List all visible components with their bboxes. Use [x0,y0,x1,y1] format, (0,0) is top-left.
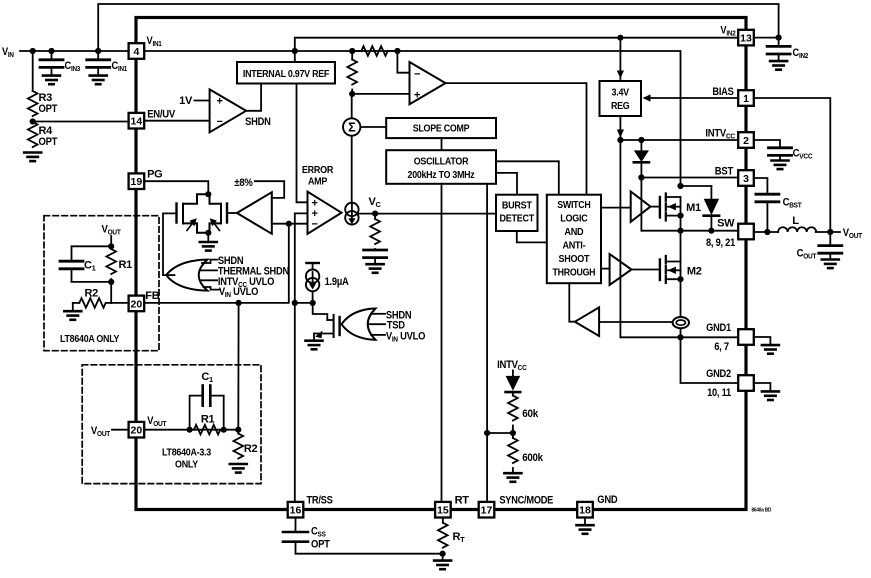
junction VC [372,211,378,217]
transistor M1 [660,194,681,221]
pin 3 BST [738,170,754,186]
svg-text:AND: AND [564,226,584,238]
svg-text:R2: R2 [85,288,99,300]
svg-text:ERROR: ERROR [302,164,334,176]
OR gate shutdown (4-input) [166,260,207,291]
pin 16 TR/SS [288,502,304,518]
wire: M1 driver to gate [651,206,660,208]
capacitor CVCC [754,140,780,148]
svg-text:+: + [414,90,420,102]
wire: VIN2 into 3.4V REG with arrow [619,38,621,79]
transistor M2 [660,256,681,283]
svg-text:CIN3: CIN3 [65,60,81,73]
svg-text:VIN: VIN [2,46,14,59]
OR gate TR/SS discharge (3-input) [342,309,376,340]
junction FB at - input [286,221,292,227]
svg-text:200kHz TO 3MHz: 200kHz TO 3MHz [408,169,475,181]
resistor current sense horizontal [352,50,361,52]
svg-text:FB: FB [145,290,159,302]
junction R3/R4 EN divider [30,118,36,124]
svg-text:PG: PG [147,169,162,181]
svg-text:LT8640A-3.3: LT8640A-3.3 [162,447,211,459]
junction sense resistor right [394,48,400,54]
junction INTVCC at regulator output [617,137,623,143]
svg-text:SHOOT: SHOOT [559,253,591,265]
svg-text:−: − [414,69,420,81]
wire: OR input INTVCC UVLO [202,279,218,281]
wire: EN comparator output SHDN up to REF box [246,84,261,111]
ground below PMOS pair [200,242,217,251]
op-amp PG window comparator [237,192,272,234]
svg-text:AMP: AMP [308,176,327,188]
svg-text:COUT: COUT [797,248,817,261]
capacitor CSS OPT [295,518,297,532]
wire: INTVCC rail to pin 2 [620,139,738,141]
svg-text:GND2: GND2 [706,368,731,380]
ground below pin 18 [584,518,586,526]
current source clamp at error amp output [345,203,358,225]
junction on VIN rail at R3 [30,48,36,54]
resistor VC compensation [374,214,376,219]
resistor R4 OPT [28,122,38,147]
wire: L to VOUT [816,231,840,233]
wire: BST rail down through M1 driver to SW [640,178,642,231]
wire: switch logic to M1 driver [601,207,631,209]
wire: jog to current comparator - input [397,51,409,73]
pin 18 GND [577,502,593,518]
wire: OR input VIN UVLO [204,287,219,290]
resistor 60k [508,396,518,421]
junction 1.9uA output [310,300,316,306]
ground below R4 [24,153,41,162]
wire: M1 source to SW to M2 drain [680,216,682,262]
wire: SW to inductor [754,231,778,233]
svg-text:VIN UVLO: VIN UVLO [386,330,426,343]
wire: PG pin to PMOS pair top [144,181,208,194]
junction PMOS pair bottom [205,230,211,236]
wire: INTVCC rail down through M2 driver to GND1 [620,140,680,337]
transistor TR/SS discharge NMOS [314,315,340,341]
svg-text:15: 15 [437,505,449,517]
svg-text:20: 20 [131,298,143,310]
svg-text:BIAS: BIAS [712,86,733,98]
pin 20 VOUT (3.3) [129,422,145,438]
summing node sigma [343,118,360,135]
svg-text:R1: R1 [119,259,133,271]
wire: EN/UV from divider to pin 14 [33,121,129,123]
svg-text:CVCC: CVCC [793,148,813,161]
resistor R1 (3.3) [194,425,220,435]
svg-text:1.9µA: 1.9µA [325,276,349,288]
junction M1 drain [677,183,683,189]
wire: OR2 input TSD [368,323,385,325]
junction VOUT/R1/C1 [108,243,114,249]
wire: VOUT into pin 20 [112,429,128,431]
pin 17 SYNC/MODE [479,502,495,518]
wire: OR2 input VIN UVLO [371,334,385,336]
wire: pin 13 to CIN2 [754,37,779,39]
svg-text:INTVCC: INTVCC [705,128,735,141]
svg-text:4: 4 [133,46,139,58]
svg-text:VC: VC [369,196,382,209]
junction RT/CSS ground node [440,551,446,557]
junction 60k/600k to SYNC [510,430,516,436]
wire: M2 driver to gate [632,269,660,271]
svg-text:1V: 1V [179,95,193,107]
junction TR/SS at 1.9uA [292,300,298,306]
svg-text:+: + [216,96,222,108]
svg-text:−: − [311,219,317,231]
junction sense resistor bottom [349,91,355,97]
svg-text:ONLY: ONLY [175,459,198,471]
wire: SW rail to pin [641,230,738,232]
svg-text:16: 16 [290,505,302,517]
wire: FB line up to rail [237,303,239,430]
svg-text:GND1: GND1 [706,322,731,334]
ground below RT [442,554,444,561]
svg-text:8640a BD: 8640a BD [752,508,772,514]
wire: right gate from PG comparator [228,212,237,214]
svg-text:3: 3 [743,173,749,185]
pin 15 RT [435,502,451,518]
wire: reverse comparator output up to switch logic [569,283,575,322]
svg-text:600k: 600k [522,452,544,464]
wire: sigma down to clamp [351,136,353,203]
junction INTVCC at boost diode [638,137,644,143]
svg-text:SHDN: SHDN [245,116,271,128]
wire: oscillator down to RT pin 15 [441,184,443,502]
box SWITCH LOGIC AND ANTI-SHOOT THROUGH [547,195,601,284]
wire: sigma top to slope resistor node [351,94,353,118]
wire: EN/UV pin to comparator - input [144,120,209,122]
wire: oscillator down to SYNC/MODE pin 17 [486,184,488,502]
current sense oval [673,317,689,328]
resistor RT external [442,518,444,523]
capacitor CIN2 [778,38,780,47]
svg-text:VIN2: VIN2 [720,25,735,38]
svg-text:VOUT: VOUT [91,425,111,438]
svg-text:60k: 60k [522,408,539,420]
current source 1.9uA soft-start [306,262,318,264]
wire: VIN input rail to pin 4 [20,50,129,52]
wire: +/-8% hook into comparator [255,181,284,198]
IC boundary outline [136,18,746,510]
resistor R1 (LT8640A) [110,246,112,249]
ground below 600k [504,473,521,482]
svg-text:17: 17 [481,505,493,517]
capacitor VC compensation [374,248,376,251]
wire: BIAS external to VOUT [754,98,831,232]
svg-text:1: 1 [743,93,749,105]
wire: sense to reverse comparator [599,321,673,323]
wire: VIN1 rail inside IC (pin 4 to M1 drain drop) [144,51,680,186]
wire: burst detect to switch logic [517,231,547,242]
capacitor C1 (LT8640A) loop [72,246,112,260]
junction CIN2 [776,35,782,41]
driver M1 gate driver triangle [631,192,651,222]
svg-text:BURST: BURST [502,200,533,212]
junction VOUT node [827,229,833,235]
dashed box LT8640A ONLY [44,216,159,351]
pin 4 VIN1 [129,43,145,59]
pin 2 INTVCC [738,132,754,148]
junction M2 source [677,276,683,282]
svg-text:SYNC/MODE: SYNC/MODE [499,495,553,507]
wire: TR/SS discharge jog [313,303,328,320]
svg-text:VIN UVLO: VIN UVLO [219,286,259,299]
svg-text:EN/UV: EN/UV [147,109,176,121]
junction SW at M stack [677,228,683,234]
wire: OR2 input SHDN [371,313,385,315]
driver M2 gate driver triangle [610,254,632,285]
svg-text:INTERNAL 0.97V REF: INTERNAL 0.97V REF [243,68,330,80]
wire: M2 source through sense to GND1 [680,279,682,337]
pin GND2 [738,375,754,391]
svg-text:C1: C1 [201,371,213,384]
wire: oscillator to burst detect [496,173,517,195]
junction PMOS pair top [205,191,211,197]
svg-text:GND: GND [597,494,617,506]
svg-text:OSCILLATOR: OSCILLATOR [414,156,469,168]
wire: TR/SS rail up to error amp + input [295,213,308,502]
diode INTVCC to 60k [512,371,514,376]
op-amp current limit comparator [410,62,446,104]
svg-text:REG: REG [611,100,630,112]
wire: VOUT stub [110,236,112,246]
ground below R2 (3.3) [230,464,247,473]
wire: CSS return to RT ground [296,542,443,554]
ground at GND1 [754,337,771,345]
junction R1 left [187,427,193,433]
junction VIN1/REF feed [292,48,298,54]
box 3.4V REG [600,81,642,116]
wire: switch logic to M2 driver [601,268,610,270]
resistor R3 OPT [28,91,38,116]
svg-text:VIN1: VIN1 [147,35,162,48]
svg-text:−: − [216,116,222,128]
junction R1 right [221,427,227,433]
svg-text:±8%: ±8% [234,177,253,189]
svg-text:THROUGH: THROUGH [553,267,596,279]
svg-text:R2: R2 [244,443,258,455]
wire: oscillator to switch logic [496,161,559,194]
ground TR/SS discharge [306,341,323,350]
svg-text:13: 13 [740,33,752,45]
dashed box LT8640A-3.3 ONLY [82,365,261,484]
junction SW at schottky [708,228,714,234]
svg-text:Σ: Σ [348,121,356,135]
svg-text:OPT: OPT [311,539,330,551]
box BURST DETECT [496,195,538,231]
svg-text:C1: C1 [84,260,96,273]
svg-text:3.4V: 3.4V [612,87,630,99]
capacitor CIN1 [97,51,99,60]
wire: comparator output to switch logic [446,83,587,195]
svg-text:ANTI-: ANTI- [562,240,586,252]
wire: left gate from OR output [163,213,175,275]
svg-text:RT: RT [455,495,470,507]
wire: BST to pin 3 [641,177,738,179]
wire: FB rail from divider up to - input [111,224,289,303]
svg-text:BST: BST [715,166,734,178]
junction M1 source [677,213,683,219]
op-amp EN comparator [210,89,247,132]
resistor R2 (3.3) [237,430,239,434]
wire: to current comparator + input [352,93,409,95]
box SLOPE COMP [386,118,496,138]
svg-text:OPT: OPT [39,136,58,148]
svg-text:OPT: OPT [39,103,58,115]
svg-text:LT8640A ONLY: LT8640A ONLY [60,333,119,345]
svg-text:19: 19 [131,176,143,188]
junction VIN1 at sense resistor [349,48,355,54]
svg-text:M1: M1 [686,202,701,214]
svg-text:6, 7: 6, 7 [714,341,729,353]
pin SW [738,224,754,240]
svg-text:14: 14 [131,116,143,128]
svg-text:CSS: CSS [311,526,326,539]
svg-text:R1: R1 [201,414,215,426]
wire: BIAS into 3.4V REG with arrow [649,97,738,99]
svg-text:2: 2 [743,135,749,147]
wire: divider tap to SYNC line [487,432,513,434]
wire: 1.9uA to TR/SS rail [295,302,313,304]
junction R1 bottom [108,279,114,285]
resistor 600k [512,433,514,438]
wire: OR input THERMAL SHDN [201,269,217,271]
svg-text:8, 9, 21: 8, 9, 21 [706,237,735,249]
junction SYNC line [484,430,490,436]
junction FB rail to 3.3 version divider [236,300,242,306]
svg-text:CIN2: CIN2 [793,47,809,60]
wire: GND2 drop and to pin [681,337,739,383]
junction VIN2 to regulator [617,35,623,41]
svg-text:SW: SW [717,218,735,230]
svg-text:10, 11: 10, 11 [707,387,731,399]
wire: 1V into + input [195,100,210,102]
pin 20 FB [129,296,145,312]
ground at GND2 [754,383,771,391]
svg-text:M2: M2 [687,266,702,278]
box OSCILLATOR [386,150,496,184]
svg-text:20: 20 [131,425,143,437]
wire: PMOS pair bottom to ground [207,233,209,242]
svg-text:VOUT: VOUT [101,224,121,237]
capacitor CBST [754,178,768,194]
wire: GND1 to pin [681,336,739,338]
box INTERNAL 0.97V REF [237,62,335,84]
junction CIN3 [48,48,54,54]
op-amp reverse current comparator [575,307,599,336]
svg-text:RT: RT [453,531,466,544]
wire: REF output down to error amp + input [297,84,308,203]
wire: VC line from clamp to burst detect [359,213,496,215]
pin 13 VIN2 [738,30,754,46]
pin 1 BIAS [738,90,754,106]
resistor slope sense vertical [351,51,353,60]
capacitor COUT [829,232,831,246]
junction CBST at SW [764,229,770,235]
inductor L [778,227,816,232]
pin 14 EN/UV [129,113,145,129]
wire: OR input SHDN [202,260,217,263]
svg-text:DETECT: DETECT [500,213,535,225]
wire: M1 drain rail to schottky [681,185,712,187]
wire: R3 top stub [32,51,34,91]
junction CIN1 / top bus tap [95,48,101,54]
capacitor C1 (3.3) loop [190,396,202,430]
wire: slope comp to oscillator [441,138,443,150]
wire: 3.4V REG output INTVCC with arrow [619,116,621,140]
junction R2/FB tap [235,427,241,433]
ground below R2 [72,303,74,311]
svg-text:CBST: CBST [783,197,803,210]
junction GND1 rail [677,334,683,340]
pin 19 PG [129,173,145,189]
transistor PMOS pair PG pull-down [177,194,228,233]
svg-text:18: 18 [579,505,591,517]
svg-text:CIN1: CIN1 [112,60,128,73]
diode boost from INTVCC [640,140,642,150]
pin GND1 [738,329,754,345]
wire: top bus VIN over to CIN2 node [98,4,778,51]
svg-text:VOUT: VOUT [843,227,863,240]
wire: VIN2 rail inside IC [295,38,738,62]
wire: VOUT rail to divider [144,429,238,431]
wire: sigma to slope comp box [360,126,386,128]
svg-text:SWITCH: SWITCH [557,199,590,211]
capacitor CIN3 [51,51,53,60]
ground VC compensation [367,264,384,273]
wire: FB to PG comparator and error amp - input [272,223,308,225]
diode schottky across M1 [710,186,712,199]
junction BST rail [638,174,644,180]
wire: OR output to tip [166,274,174,276]
svg-text:TR/SS: TR/SS [307,495,333,507]
svg-text:L: L [792,215,799,227]
svg-text:SLOPE COMP: SLOPE COMP [413,123,470,135]
svg-text:LOGIC: LOGIC [560,213,588,225]
svg-text:VOUT: VOUT [147,415,167,428]
